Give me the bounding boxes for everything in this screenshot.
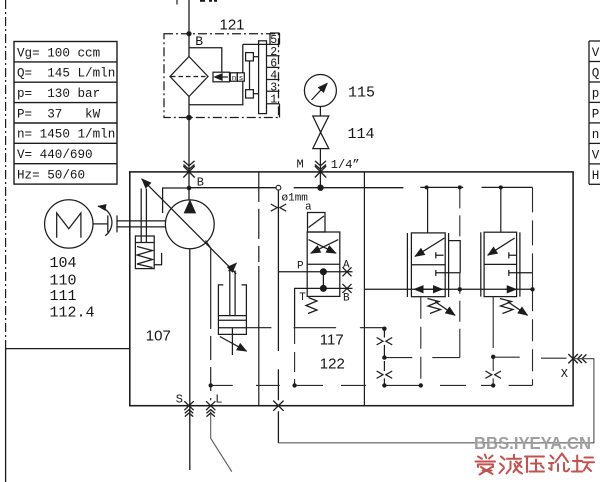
svg-text:L: L xyxy=(215,392,222,406)
svg-text:s: s xyxy=(239,75,244,83)
svg-text:n: n xyxy=(592,128,600,142)
svg-text:107: 107 xyxy=(146,327,171,344)
svg-text:1: 1 xyxy=(270,94,277,107)
svg-text:P: P xyxy=(592,107,600,121)
svg-text:A: A xyxy=(343,259,350,271)
svg-text:B: B xyxy=(343,293,350,305)
svg-text:P: P xyxy=(297,261,304,273)
svg-text:115: 115 xyxy=(348,85,375,102)
svg-text:Q= 145 L/mln: Q= 145 L/mln xyxy=(17,67,115,81)
svg-text:117: 117 xyxy=(320,332,344,349)
svg-text:1/4”: 1/4” xyxy=(331,158,360,172)
svg-text:121: 121 xyxy=(220,16,245,33)
svg-text:M: M xyxy=(297,157,304,171)
svg-text:110: 110 xyxy=(50,273,77,290)
svg-text:112.4: 112.4 xyxy=(50,305,95,322)
svg-text:H: H xyxy=(592,169,600,183)
svg-text:Q: Q xyxy=(592,67,600,81)
svg-text:V: V xyxy=(592,46,600,60)
svg-text:S: S xyxy=(176,392,183,406)
svg-text:V= 440/690: V= 440/690 xyxy=(17,148,93,162)
svg-text:Vg= 100 ccm: Vg= 100 ccm xyxy=(17,46,100,60)
svg-text:n: n xyxy=(232,75,237,83)
svg-text:122: 122 xyxy=(320,356,345,373)
svg-text:B: B xyxy=(195,34,203,49)
svg-text:p: p xyxy=(592,87,600,101)
svg-text:114: 114 xyxy=(348,126,375,143)
svg-text:X: X xyxy=(561,367,568,381)
svg-text:104: 104 xyxy=(50,255,77,272)
svg-text:P= 37 kW: P= 37 kW xyxy=(17,107,101,121)
svg-text:ø1mm: ø1mm xyxy=(282,192,309,204)
svg-text:3: 3 xyxy=(270,81,277,94)
svg-text:p= 130 bar: p= 130 bar xyxy=(17,87,100,101)
svg-text:B: B xyxy=(197,176,204,190)
svg-text:V: V xyxy=(592,148,600,162)
svg-text:Hz= 50/60: Hz= 50/60 xyxy=(17,168,85,182)
svg-text:BBS.IYEYA.CN: BBS.IYEYA.CN xyxy=(474,433,591,453)
svg-text:T: T xyxy=(299,292,306,304)
svg-text:111: 111 xyxy=(50,288,77,305)
svg-text:n= 1450 1/mln: n= 1450 1/mln xyxy=(17,128,115,142)
